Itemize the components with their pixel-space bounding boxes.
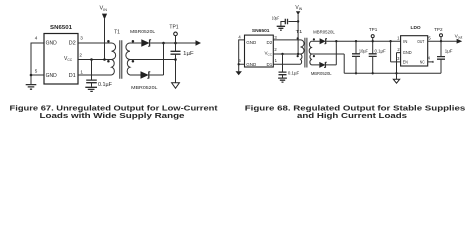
svg-text:MBR0520L: MBR0520L	[311, 71, 332, 76]
svg-text:5: 5	[35, 68, 38, 73]
svg-text:IN: IN	[403, 39, 407, 44]
svg-text:GND: GND	[403, 50, 412, 55]
svg-text:MBR0520L: MBR0520L	[131, 85, 158, 90]
svg-text:0.1µF: 0.1µF	[288, 71, 300, 76]
svg-text:2: 2	[79, 53, 82, 58]
svg-text:D1: D1	[267, 62, 273, 67]
svg-text:Loads with Wide Supply Range: Loads with Wide Supply Range	[40, 111, 185, 120]
svg-text:TP1: TP1	[369, 27, 378, 32]
svg-text:SN6501: SN6501	[252, 28, 270, 33]
svg-text:GND: GND	[46, 73, 58, 79]
svg-text:MBR0520L: MBR0520L	[130, 29, 156, 34]
svg-text:TP2: TP2	[434, 27, 443, 32]
svg-text:T1: T1	[114, 29, 120, 35]
svg-text:OUT: OUT	[417, 39, 425, 44]
svg-text:GND: GND	[46, 40, 58, 46]
svg-text:3: 3	[80, 36, 83, 41]
svg-text:0.1µF: 0.1µF	[98, 82, 112, 88]
svg-text:10µF: 10µF	[359, 49, 368, 54]
svg-text:1µF: 1µF	[183, 51, 193, 57]
svg-text:0.1µF: 0.1µF	[375, 49, 387, 54]
svg-text:D2: D2	[69, 40, 76, 46]
svg-text:GND: GND	[246, 62, 257, 67]
svg-text:D2: D2	[267, 40, 273, 45]
svg-text:10µF: 10µF	[272, 15, 280, 20]
svg-text:EN: EN	[403, 60, 408, 65]
svg-text:1µF: 1µF	[445, 49, 453, 54]
svg-text:TP1: TP1	[169, 25, 178, 31]
svg-text:T1: T1	[296, 29, 303, 34]
svg-text:NC: NC	[420, 60, 425, 65]
svg-text:SN6501: SN6501	[50, 25, 72, 31]
svg-text:LDO: LDO	[411, 25, 421, 31]
svg-text:MBR0520L: MBR0520L	[313, 29, 335, 34]
svg-text:1: 1	[80, 70, 83, 75]
svg-text:4: 4	[35, 36, 38, 41]
svg-text:and High Current Loads: and High Current Loads	[297, 111, 407, 120]
svg-text:D1: D1	[69, 73, 76, 79]
svg-text:GND: GND	[246, 40, 257, 45]
